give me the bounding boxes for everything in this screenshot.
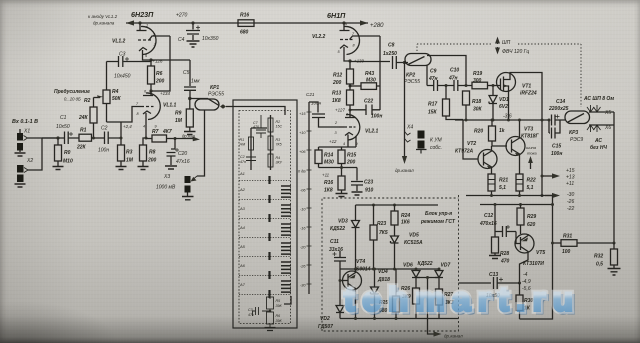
wire R1 to C2	[92, 137, 105, 139]
svg-text:1: 1	[146, 24, 148, 28]
svg-text:C8: C8	[388, 43, 395, 49]
svg-text:VL1.2: VL1.2	[112, 39, 126, 45]
svg-text:-26: -26	[567, 199, 574, 205]
resistor R3 internal	[268, 136, 273, 150]
svg-text:+127: +127	[335, 108, 345, 113]
svg-text:+15: +15	[299, 112, 306, 116]
svg-text:C22: C22	[364, 99, 373, 105]
svg-text:Х6: Х6	[604, 125, 611, 131]
svg-text:R19: R19	[473, 71, 482, 77]
connector X4	[405, 131, 427, 154]
svg-text:C13: C13	[489, 272, 498, 278]
svg-text:R23: R23	[377, 221, 386, 227]
wire cathode resistors bus	[319, 167, 358, 169]
capacitor C20	[165, 139, 179, 170]
capacitor C7 internal	[256, 115, 266, 138]
svg-text:+11: +11	[566, 181, 574, 187]
svg-text:300: 300	[473, 78, 482, 84]
svg-text:22К: 22К	[76, 145, 87, 151]
resistor R9	[184, 99, 196, 135]
capacitor C10	[454, 80, 472, 91]
wire mid feed	[480, 204, 553, 206]
svg-text:47н: 47н	[428, 76, 438, 82]
resistor R23	[370, 205, 377, 269]
svg-text:3КУ: 3КУ	[276, 161, 283, 165]
capacitor C15	[549, 120, 560, 139]
svg-text:VD5: VD5	[409, 233, 419, 239]
wire minus arrow	[545, 195, 553, 197]
svg-text:C23: C23	[364, 180, 373, 186]
svg-text:РЭС9: РЭС9	[570, 137, 583, 143]
wire gst bottom bus	[340, 318, 459, 320]
svg-text:R43: R43	[365, 71, 374, 77]
svg-text:VD7: VD7	[441, 263, 451, 269]
svg-text:-22: -22	[567, 206, 574, 212]
RIGHT POWER SECTION	[455, 38, 621, 319]
TEXT EQ BOX	[239, 92, 322, 323]
svg-text:1мк: 1мк	[191, 79, 200, 85]
capacitor C12	[494, 203, 517, 237]
wire VT5 collector down	[520, 254, 529, 283]
wire lower bus	[520, 196, 553, 320]
transistor VT2	[478, 146, 497, 174]
resistor R43	[350, 83, 380, 90]
svg-text:Х2: Х2	[26, 158, 33, 164]
svg-text:R9: R9	[175, 111, 182, 117]
svg-text:шина: шина	[526, 145, 537, 150]
svg-text:1М: 1М	[175, 118, 183, 124]
svg-text:620: 620	[527, 222, 536, 228]
svg-text:VL1.1: VL1.1	[163, 103, 177, 109]
TEXT-LEFT	[12, 10, 249, 191]
svg-text:iRFZ24: iRFZ24	[520, 91, 537, 97]
svg-text:КД522: КД522	[418, 261, 433, 267]
svg-text:C9: C9	[430, 69, 437, 75]
svg-text:R13: R13	[332, 91, 341, 97]
svg-text:100н: 100н	[311, 101, 322, 106]
svg-text:47н: 47н	[448, 76, 458, 82]
svg-text:+13: +13	[566, 175, 575, 181]
node junction VL1.2 anode	[138, 21, 141, 24]
relay contact KP2	[405, 54, 467, 86]
resistor R2 internal	[268, 118, 273, 132]
node X4 tap	[403, 61, 406, 64]
svg-text:+06: +06	[299, 150, 306, 154]
node junction C4	[191, 21, 194, 24]
svg-text:+134: +134	[160, 91, 170, 96]
node source rail joins	[465, 119, 468, 122]
tube VL1.2 triode	[137, 23, 171, 60]
node R18 top	[465, 84, 468, 87]
svg-text:ГД507: ГД507	[318, 324, 333, 330]
wire plus arrow	[542, 175, 553, 177]
node C9 C10 R17	[445, 84, 448, 87]
resistor R13	[347, 84, 354, 117]
tube VL1.1 triode	[107, 91, 161, 137]
wire VL1.2 grid to lower anode	[151, 36, 170, 91]
svg-text:-06: -06	[300, 189, 306, 193]
resistor R1 internal	[249, 137, 254, 150]
capacitor C8	[393, 56, 406, 69]
svg-text:-3,6: -3,6	[503, 114, 512, 120]
wire VL2.2 grid riser	[379, 36, 381, 110]
node KP1 input	[188, 97, 191, 100]
capacitor C2	[105, 132, 122, 145]
svg-text:C4: C4	[178, 37, 185, 43]
box tone unit outer	[233, 100, 297, 328]
svg-text:R22: R22	[527, 178, 536, 184]
svg-text:-30: -30	[567, 192, 574, 198]
wire VD6 VD7 link	[416, 277, 439, 279]
resistor R32	[608, 243, 621, 275]
wire bus down to minus rail	[541, 120, 543, 196]
svg-text:ФВЧ 120 Гц: ФВЧ 120 Гц	[502, 49, 529, 55]
node +127	[349, 109, 352, 112]
svg-text:КР1: КР1	[210, 85, 219, 91]
svg-text:2: 2	[334, 121, 338, 125]
resistor R28	[489, 232, 501, 259]
svg-text:РЭС55: РЭС55	[404, 79, 420, 85]
svg-text:9: 9	[356, 142, 359, 146]
svg-text:C14: C14	[556, 99, 565, 105]
svg-text:R28: R28	[500, 251, 509, 257]
svg-text:VT5: VT5	[536, 250, 545, 256]
svg-text:47х16: 47х16	[176, 159, 190, 165]
diode VD2	[336, 279, 344, 319]
wire gst mid bus	[340, 268, 439, 270]
node R2 bottom	[92, 137, 95, 140]
svg-text:0,5: 0,5	[596, 262, 603, 268]
svg-text:100н: 100н	[551, 151, 562, 157]
svg-text:R3: R3	[126, 150, 133, 156]
resistor R16	[238, 20, 254, 27]
node C13	[518, 282, 521, 285]
svg-text:R17: R17	[428, 102, 437, 108]
resistor R17	[443, 86, 464, 120]
wire VT1 source	[508, 91, 510, 120]
resistor R16b	[336, 168, 348, 197]
svg-text:+11: +11	[322, 173, 330, 178]
svg-text:к аноду VL1.2: к аноду VL1.2	[88, 14, 118, 19]
node +134	[149, 89, 152, 92]
capacitor C9	[427, 80, 454, 91]
svg-text:КР3: КР3	[569, 130, 578, 136]
connector X1	[15, 129, 59, 156]
svg-text:5,1: 5,1	[499, 185, 506, 191]
resistor R27	[436, 278, 443, 319]
svg-text:470х16: 470х16	[479, 221, 497, 227]
svg-text:АС ШП 8 Ом: АС ШП 8 Ом	[583, 96, 614, 102]
node R20 top	[491, 119, 494, 122]
svg-text:др.кан: др.кан	[182, 134, 196, 139]
svg-text:1К8: 1К8	[332, 98, 341, 104]
capacitor C22	[350, 105, 380, 116]
node internal	[269, 310, 272, 313]
svg-text:1М: 1М	[126, 158, 134, 164]
transistor VT5	[515, 232, 534, 255]
svg-text:100н: 100н	[98, 148, 109, 154]
tube VL2.1 triode	[339, 114, 360, 147]
svg-text:200: 200	[155, 79, 165, 85]
svg-text:VL2.1: VL2.1	[365, 129, 379, 135]
svg-text:др.канал: др.канал	[444, 334, 463, 339]
svg-text:10х350: 10х350	[202, 36, 219, 42]
svg-text:1К8: 1К8	[324, 188, 333, 194]
wire gst top bus	[356, 204, 439, 206]
capacitor C1	[65, 132, 80, 145]
node R16b top	[340, 166, 343, 169]
resistor R19	[472, 82, 497, 89]
svg-text:режимом ГСТ: режимом ГСТ	[420, 219, 456, 225]
svg-text:200: 200	[346, 160, 356, 166]
svg-text:VT1: VT1	[522, 84, 531, 90]
svg-text:1К6: 1К6	[401, 220, 410, 226]
svg-text:C1: C1	[60, 115, 67, 121]
wire signal into box	[233, 107, 285, 116]
connector X5	[587, 105, 614, 112]
svg-text:VD3: VD3	[338, 219, 348, 225]
wire minus rail	[466, 195, 553, 197]
inductor bars A4	[281, 224, 291, 235]
svg-text:15С: 15С	[276, 125, 283, 129]
wire to other channel arrow	[175, 138, 194, 140]
svg-text:5: 5	[338, 50, 341, 54]
svg-text:1000 мВ: 1000 мВ	[156, 185, 176, 191]
svg-text:R15: R15	[347, 153, 356, 159]
resistor R1	[79, 134, 92, 141]
node junction VL2.2 anode	[342, 21, 345, 24]
wire cathode node to C8	[350, 61, 390, 63]
svg-text:R1: R1	[240, 138, 245, 142]
svg-text:6V2: 6V2	[499, 104, 508, 110]
TEXT MIDDLE	[312, 11, 483, 194]
svg-text:КР2: КР2	[406, 73, 415, 79]
node R0 top	[56, 136, 59, 139]
svg-text:200: 200	[147, 158, 157, 164]
capacitor C23	[351, 168, 363, 196]
svg-text:+12: +12	[329, 139, 337, 144]
transistor VT3	[506, 120, 525, 174]
svg-text:R6: R6	[156, 71, 163, 77]
svg-text:1х250: 1х250	[383, 51, 397, 57]
svg-text:М30: М30	[324, 160, 334, 166]
wire R17 riser to VT2 base	[463, 120, 478, 159]
svg-text:C12: C12	[484, 213, 493, 219]
svg-text:7: 7	[136, 102, 139, 106]
svg-text:Х3: Х3	[163, 174, 170, 180]
svg-text:М10: М10	[63, 159, 73, 165]
svg-text:КТ3107И: КТ3107И	[523, 261, 544, 267]
svg-text:С21: С21	[306, 92, 315, 97]
svg-text:100н: 100н	[371, 114, 382, 120]
svg-text:-4: -4	[523, 272, 528, 278]
connector X6	[587, 125, 614, 132]
svg-text:R8: R8	[149, 150, 156, 156]
svg-text:КД522: КД522	[330, 226, 345, 232]
TEXT RIGHT	[318, 40, 614, 339]
svg-text:0 дБ: 0 дБ	[298, 170, 306, 174]
svg-text:VT3: VT3	[524, 127, 533, 133]
svg-text:33х16: 33х16	[329, 247, 343, 253]
svg-text:R32: R32	[594, 254, 603, 260]
svg-text:тока: тока	[527, 151, 537, 156]
scale ticks	[307, 112, 312, 284]
capacitor C4	[186, 23, 200, 40]
svg-text:А4: А4	[239, 225, 246, 230]
resistor R21	[488, 174, 495, 196]
svg-text:R5: R5	[276, 299, 281, 303]
relay contact KP1	[190, 99, 233, 111]
svg-text:C2: C2	[101, 126, 108, 132]
svg-text:Х1: Х1	[23, 129, 30, 135]
svg-text:R2: R2	[84, 98, 91, 104]
resistor R8	[138, 138, 149, 170]
svg-text:4: 4	[143, 125, 145, 129]
node C14	[548, 119, 551, 122]
svg-text:+280: +280	[370, 23, 384, 29]
wire top supply rail	[126, 22, 361, 24]
svg-text:М30: М30	[366, 78, 376, 84]
capacitor C14	[542, 115, 565, 126]
svg-text:VL2.2: VL2.2	[312, 34, 326, 40]
inductor bars A2	[281, 186, 291, 197]
wire A1 section bus	[251, 115, 271, 170]
svg-text:C11: C11	[330, 239, 339, 245]
transistor VT4	[340, 269, 362, 319]
wire cathode node to C5	[151, 59, 190, 61]
resistor R26	[413, 278, 420, 319]
svg-text:С15: С15	[552, 144, 561, 150]
svg-text:4К7: 4К7	[162, 129, 172, 135]
wire bars hook	[284, 296, 291, 304]
wire VL2.1 cathode bus	[319, 143, 357, 147]
resistor R0	[53, 138, 64, 170]
resistor R14	[315, 147, 322, 168]
zener VD5	[391, 236, 399, 269]
wire source rail	[455, 119, 542, 121]
level scale line	[308, 102, 310, 294]
inductor bars A3	[281, 205, 291, 216]
svg-text:R20: R20	[474, 129, 483, 135]
svg-text:R1: R1	[80, 128, 87, 134]
svg-text:2200х25: 2200х25	[548, 106, 569, 112]
zener VD4	[371, 268, 379, 319]
svg-text:R6: R6	[276, 314, 281, 318]
svg-text:ШП: ШП	[502, 40, 511, 46]
svg-text:Х5: Х5	[604, 110, 611, 116]
svg-text:R16: R16	[324, 180, 333, 186]
box tone unit inner dashed	[239, 111, 291, 324]
svg-text:-10: -10	[300, 208, 306, 212]
diode VD6	[412, 268, 420, 278]
inductor bars A5	[281, 243, 291, 254]
capacitor C21	[309, 102, 339, 127]
svg-text:+126: +126	[153, 59, 163, 64]
svg-text:без НЧ: без НЧ	[590, 144, 607, 151]
svg-text:А1: А1	[239, 171, 245, 176]
svg-text:1k: 1k	[499, 128, 505, 134]
svg-text:НМ: НМ	[240, 143, 246, 147]
svg-text:VD1: VD1	[499, 97, 509, 103]
wire X4 drop	[404, 63, 406, 158]
svg-text:С3: С3	[248, 308, 253, 312]
svg-text:К УМ: К УМ	[430, 138, 443, 144]
svg-text:+2,4: +2,4	[123, 124, 132, 129]
svg-text:VD4: VD4	[378, 269, 388, 275]
svg-text:1: 1	[346, 113, 348, 117]
node VT3 collector rail	[518, 119, 521, 122]
svg-text:R7: R7	[152, 129, 159, 135]
potentiometer R4	[94, 90, 111, 122]
connector X3	[182, 176, 197, 200]
svg-text:А2: А2	[239, 187, 246, 192]
resistor R15	[338, 147, 345, 168]
arrow ShP up	[496, 38, 500, 44]
svg-text:R4: R4	[276, 156, 281, 160]
svg-text:VD6: VD6	[403, 263, 413, 269]
svg-text:РЭС55: РЭС55	[208, 92, 224, 98]
svg-text:КТ818Г: КТ818Г	[521, 134, 540, 140]
svg-text:R0: R0	[64, 150, 71, 156]
capacitor C13	[459, 277, 520, 289]
svg-text:+139: +139	[354, 59, 364, 64]
ground internal	[265, 328, 276, 331]
svg-text:R29: R29	[527, 214, 536, 220]
svg-text:6Н1П: 6Н1П	[327, 11, 346, 20]
box GST dashed	[322, 195, 459, 331]
svg-text:VT2: VT2	[467, 141, 476, 147]
svg-text:47н: 47н	[240, 160, 246, 164]
svg-text:7К5: 7К5	[379, 230, 388, 236]
dotted control line KP2	[417, 44, 581, 107]
node VL1.1 cathode	[145, 137, 148, 140]
svg-text:3: 3	[335, 131, 338, 135]
svg-text:6Н23П: 6Н23П	[131, 10, 154, 19]
capacitor C2 internal	[246, 157, 256, 170]
svg-text:8: 8	[137, 112, 140, 116]
svg-text:R21: R21	[499, 178, 508, 184]
resistor R3	[116, 145, 127, 170]
wire VT1 drain to bus	[510, 73, 542, 121]
wire C2 to R3	[120, 122, 122, 145]
resistor R25	[393, 269, 400, 319]
resistor R7	[146, 135, 175, 142]
svg-text:30К: 30К	[473, 107, 483, 113]
resistor R2	[90, 98, 97, 138]
svg-text:Х4: Х4	[406, 125, 413, 131]
wire KP1 lower contact to X3	[197, 110, 205, 176]
capacitor C3 internal	[253, 307, 271, 316]
svg-text:R3: R3	[276, 138, 281, 142]
svg-text:др.канала: др.канала	[93, 21, 115, 26]
svg-text:C10: C10	[450, 68, 459, 74]
resistor R20	[489, 120, 508, 146]
svg-text:-30: -30	[300, 284, 306, 288]
resistor R24	[391, 205, 398, 236]
svg-text:VT4: VT4	[356, 259, 365, 265]
svg-text:8: 8	[353, 44, 356, 48]
svg-text:39К: 39К	[276, 304, 283, 308]
resistor R12	[347, 61, 354, 84]
svg-text:15К: 15К	[428, 110, 438, 116]
svg-text:R24: R24	[401, 213, 410, 219]
svg-text:+10: +10	[299, 131, 306, 135]
resistor R6 internal	[267, 312, 274, 327]
svg-text:VD2: VD2	[320, 316, 330, 322]
svg-text:24К: 24К	[78, 115, 89, 121]
transistor VT1 mosfet	[497, 73, 516, 92]
svg-text:С2: С2	[240, 155, 245, 159]
